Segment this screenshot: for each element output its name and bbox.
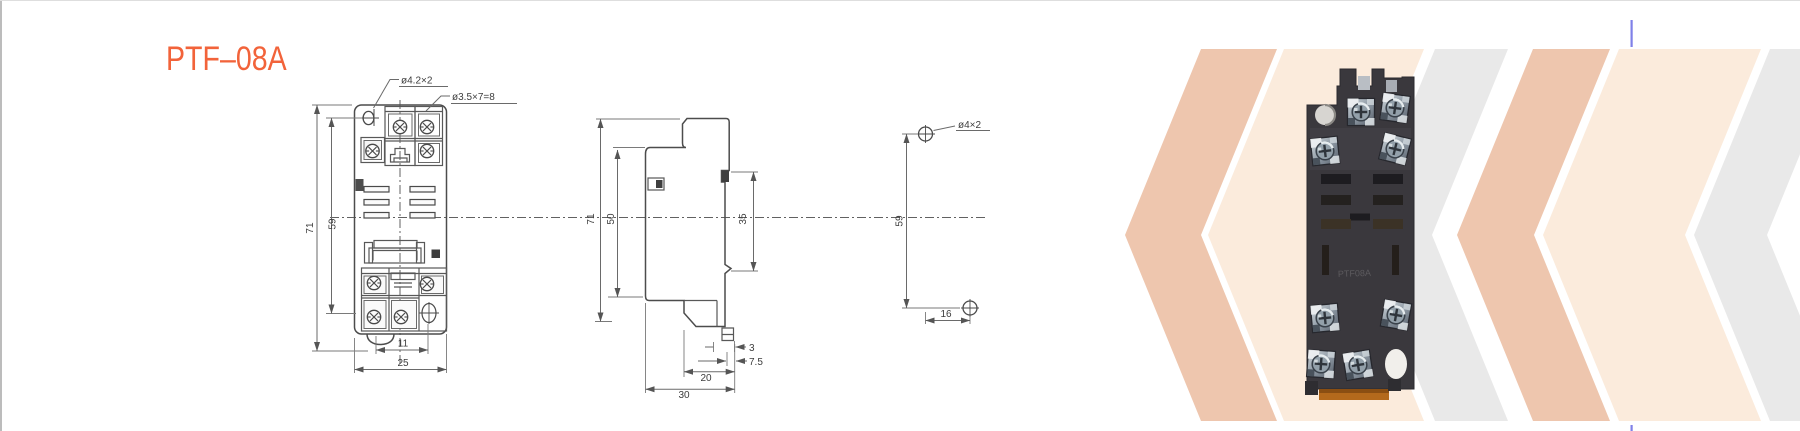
relay screw S4 xyxy=(1379,133,1412,166)
front top inner line xyxy=(385,111,443,113)
svg-text:ø4×2: ø4×2 xyxy=(958,120,982,131)
dimension 11 front xyxy=(376,324,428,354)
svg-text:25: 25 xyxy=(397,358,409,369)
dimension 59 front xyxy=(326,118,362,314)
bottom terminal dividers xyxy=(362,268,447,331)
front body outline xyxy=(355,105,447,334)
chevron salmon 1 xyxy=(1125,49,1277,421)
svg-text:ø4.2×2: ø4.2×2 xyxy=(401,76,433,87)
vent slots left column xyxy=(364,187,389,219)
chevron peach 2 xyxy=(1543,49,1761,421)
screw B3 xyxy=(367,310,380,323)
screw A2 xyxy=(420,120,433,133)
relay screw S2 xyxy=(1380,93,1410,123)
left page border xyxy=(0,0,2,431)
mid latch body xyxy=(369,248,421,263)
left edge tab xyxy=(356,179,364,191)
side body outline xyxy=(646,119,732,327)
mid latch right plate xyxy=(417,243,425,264)
screw B1 xyxy=(367,276,380,289)
relay screw S5 xyxy=(1310,303,1339,332)
svg-text:16: 16 xyxy=(940,309,952,320)
horizontal centerline xyxy=(330,217,985,219)
mid latch left plate xyxy=(365,243,373,264)
svg-text:11: 11 xyxy=(398,339,409,350)
relay top contact pins xyxy=(1358,76,1370,90)
screw A4 xyxy=(420,144,433,157)
screw A3 xyxy=(366,144,379,157)
hole top xyxy=(919,127,933,141)
chevron salmon 2 xyxy=(1457,49,1610,421)
leader label ø3.5×7=8 xyxy=(426,96,450,111)
ellipse hole bottom-right xyxy=(422,304,436,323)
bottom terminal strip xyxy=(362,268,447,331)
relay bottom left foot xyxy=(1305,381,1318,395)
side protrusion block xyxy=(722,171,730,183)
dimension 20 side xyxy=(684,330,735,377)
front top divider xyxy=(385,139,443,142)
relay slots row2 xyxy=(1321,195,1351,205)
svg-text:35: 35 xyxy=(738,213,749,225)
front top inner cells xyxy=(389,114,440,163)
relay body upper lighter patch xyxy=(1310,128,1411,170)
top page border xyxy=(0,0,1800,1)
bracket middle bottom xyxy=(391,273,415,280)
screw B2 xyxy=(420,277,433,290)
svg-text:50: 50 xyxy=(606,213,617,225)
side back small block xyxy=(648,178,664,190)
relay center slot xyxy=(1350,214,1370,221)
side bottom block inner lines xyxy=(684,301,717,327)
dimension 50 side xyxy=(608,148,645,298)
front top terminal right column xyxy=(415,107,443,166)
relay vertical slots xyxy=(1322,245,1329,275)
relay screw S6 xyxy=(1380,299,1411,330)
bottom inner line xyxy=(362,273,447,275)
relay body silhouette xyxy=(1307,69,1414,389)
dimension 71 side xyxy=(595,119,680,322)
dimension 3 side xyxy=(714,341,735,352)
chevron gray 1 xyxy=(1359,49,1508,421)
svg-text:59: 59 xyxy=(328,218,339,230)
bottom inner cells xyxy=(364,276,444,329)
svg-text:71: 71 xyxy=(305,222,316,234)
dimension 25 front xyxy=(355,334,447,373)
front top terminal mid column xyxy=(385,107,415,166)
leader label ø4.2×2 xyxy=(374,80,400,109)
mid latch top bar xyxy=(374,241,417,249)
dimension 30 side xyxy=(646,303,735,393)
svg-text:30: 30 xyxy=(678,390,690,401)
svg-text:71: 71 xyxy=(586,213,597,225)
dimension 7.5 side xyxy=(726,352,728,366)
relay oval hole xyxy=(1385,349,1407,379)
relay screw S1 xyxy=(1348,99,1375,126)
vertical centerline front view xyxy=(399,100,401,365)
dimension 35 side xyxy=(731,172,758,271)
screw A1 xyxy=(393,120,406,133)
dimension 71 front xyxy=(312,105,368,351)
relay bottom clip xyxy=(1319,389,1389,400)
dimension 16 holes xyxy=(926,312,971,324)
svg-text:ø3.5×7=8: ø3.5×7=8 xyxy=(452,92,495,103)
svg-text:7.5: 7.5 xyxy=(749,357,763,368)
mounting hole top-left xyxy=(363,111,374,124)
mid right dark square xyxy=(432,250,441,259)
relay screw S7 xyxy=(1307,350,1336,379)
relay bottom right foot xyxy=(1388,379,1401,391)
bottom tab hook xyxy=(367,334,394,345)
svg-text:59: 59 xyxy=(895,215,906,227)
front left block row2 xyxy=(361,138,385,163)
chevron peach 1 xyxy=(1208,49,1424,421)
svg-text:3: 3 xyxy=(749,343,755,354)
dimension 59 holes xyxy=(902,134,960,308)
relay round hole xyxy=(1315,105,1335,125)
title PTF-08A xyxy=(166,40,287,79)
side clip xyxy=(722,328,734,341)
screw B4 xyxy=(394,310,407,323)
svg-text:20: 20 xyxy=(700,373,712,384)
svg-text:PTF08A: PTF08A xyxy=(1338,268,1371,279)
blue tick bottom xyxy=(1631,425,1633,431)
relay screw S8 xyxy=(1343,350,1374,381)
hole bottom xyxy=(963,301,977,315)
relay slots row3 xyxy=(1321,219,1351,229)
relay slots row1 xyxy=(1321,174,1351,184)
leader label ø4×2 xyxy=(934,126,956,131)
chevron gray 2 xyxy=(1694,49,1800,421)
relay screw S3 xyxy=(1310,136,1340,166)
latch top middle xyxy=(391,149,410,163)
blue tick top xyxy=(1631,20,1633,47)
vent slots right column xyxy=(410,187,435,219)
